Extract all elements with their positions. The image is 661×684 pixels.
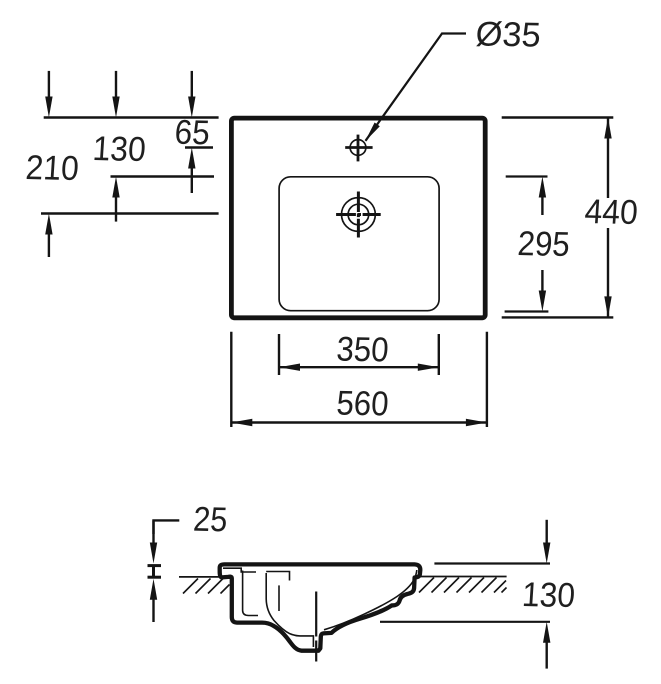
- drain center line (dashed): [315, 592, 317, 662]
- dim 25 arrow up: [150, 579, 157, 600]
- dim 560 left extension line: [230, 332, 232, 427]
- basin inner bowl rounded rectangle: [279, 177, 439, 311]
- dim 25 ticks: [148, 564, 162, 567]
- leader arrowhead: [365, 123, 380, 142]
- countertop hatching left: [183, 579, 230, 594]
- dim 25 arrow down: [152, 520, 154, 550]
- under-rim step line left: [223, 568, 256, 572]
- dim 25 top corner line: [154, 520, 180, 534]
- dim 130 arrow down: [546, 520, 548, 550]
- dim 130 arrow up: [543, 622, 550, 643]
- drain crosshair vertical: [357, 192, 360, 238]
- drain crosshair horizontal: [336, 213, 381, 216]
- dim 65 arrow down (above top line): [191, 71, 193, 104]
- overflow channel inner wall right and bowl inner left curve: [266, 573, 313, 647]
- dim 130 arrow up (below its line): [112, 177, 119, 198]
- dim 295 arrow up: [539, 177, 546, 198]
- faucet hole crosshair vertical: [357, 135, 360, 162]
- svg-text:Ø35: Ø35: [474, 15, 541, 54]
- svg-text:440: 440: [583, 193, 638, 232]
- basin top extension line (130 level): [111, 175, 215, 177]
- drain center extension line (210 level): [41, 212, 219, 214]
- dim 130 top line (rim level): [434, 562, 550, 564]
- dim 350 line with arrows: [279, 366, 439, 368]
- dim 560 right extension line: [486, 332, 488, 427]
- countertop line left: [179, 576, 226, 578]
- dim 130 bottom line (bowl floor level): [380, 621, 550, 623]
- faucet hole circle: [350, 140, 366, 156]
- svg-text:350: 350: [335, 331, 389, 370]
- inner bowl right side rising curve: [324, 570, 417, 630]
- faucet center extension line (65 underline): [185, 146, 213, 148]
- top edge extension line left: [44, 116, 219, 118]
- basin outer rim rectangle: [231, 118, 485, 318]
- dim 350 left extension tick: [278, 334, 280, 375]
- dim 560 line with arrows: [231, 421, 487, 423]
- dim 295 top extension line (basin top level): [506, 175, 548, 177]
- drain inner circle: [348, 204, 369, 225]
- countertop hatching right: [419, 578, 507, 593]
- svg-text:295: 295: [516, 225, 570, 264]
- dim 210 arrow up (below its line): [45, 214, 52, 235]
- svg-text:560: 560: [335, 385, 389, 424]
- overflow channel inner wall left: [243, 571, 258, 616]
- top edge extension line right: [502, 116, 614, 118]
- svg-text:210: 210: [24, 149, 79, 188]
- dim 350 right extension tick: [438, 334, 440, 375]
- dim 295 arrow down: [541, 270, 543, 298]
- countertop line right: [416, 576, 507, 578]
- svg-text:25: 25: [192, 501, 228, 540]
- inner wall short vertical: [278, 585, 280, 611]
- leader line for faucet hole: [366, 34, 467, 141]
- dim 440 line with arrows at right: [607, 118, 609, 199]
- dim 295 bottom extension line (basin bottom level): [505, 310, 549, 312]
- under-rim step line middle: [266, 572, 289, 581]
- drain outer circle: [342, 198, 376, 232]
- svg-text:130: 130: [91, 130, 146, 169]
- dim 130 arrow down (above top line): [115, 71, 117, 104]
- svg-text:130: 130: [521, 576, 576, 615]
- section inner lines (thin): [223, 568, 417, 647]
- bottom edge extension line right (440 level): [502, 316, 614, 318]
- dim 210 arrow down (above top line): [48, 71, 50, 104]
- faucet hole crosshair horizontal: [345, 146, 372, 149]
- dim 65 arrow up (below its line): [188, 148, 195, 169]
- basin section outer profile (thick): [220, 564, 421, 650]
